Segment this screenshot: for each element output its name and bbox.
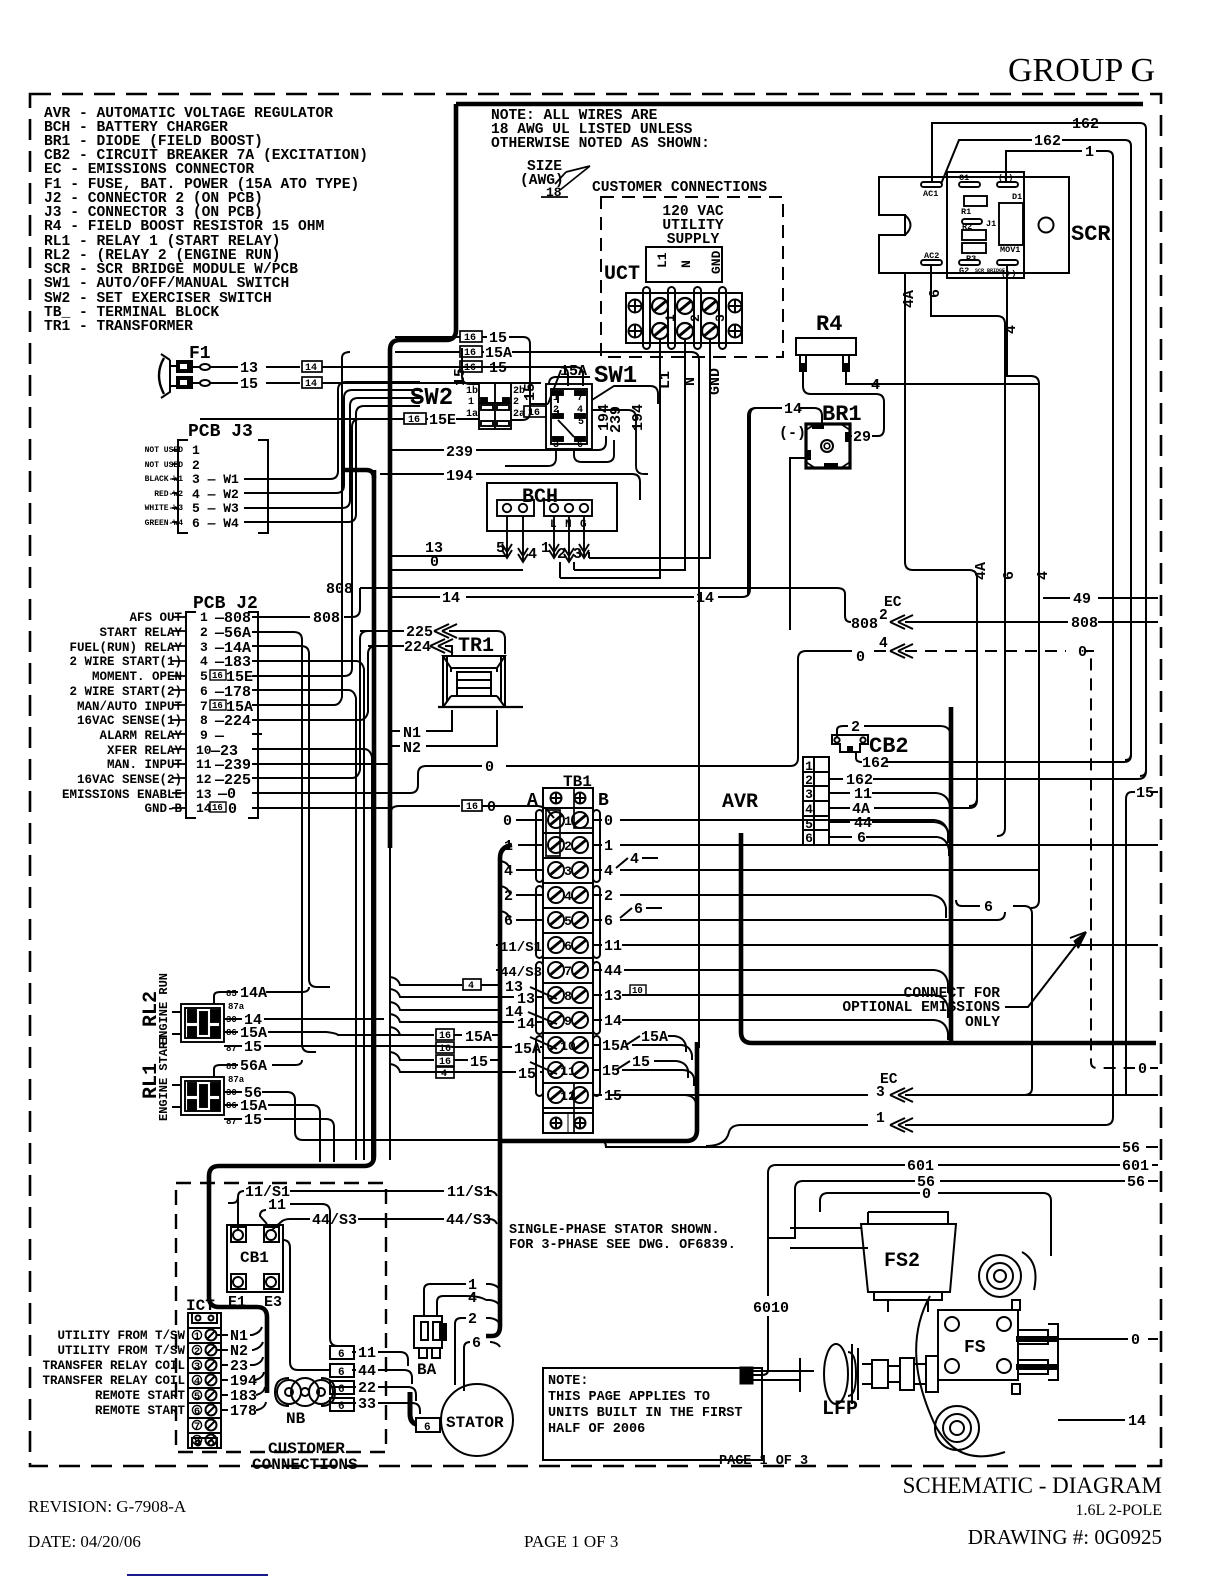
wire 15A row10 right <box>593 1036 692 1060</box>
wire 44/S3 row7 left <box>496 969 502 971</box>
wire 13 from F1 <box>210 367 568 386</box>
svg-text:15: 15 <box>604 1088 622 1105</box>
svg-text:2: 2 <box>513 397 519 408</box>
svg-text:6 — W4: 6 — W4 <box>192 516 239 531</box>
dashed customer box <box>176 1183 386 1452</box>
svg-text:11: 11 <box>604 938 622 955</box>
svg-text:11: 11 <box>268 1197 286 1214</box>
svg-text:R3: R3 <box>966 254 976 264</box>
svg-text:15A: 15A <box>602 1038 629 1055</box>
svg-text:49: 49 <box>1073 591 1091 608</box>
svg-text:15: 15 <box>244 1039 262 1056</box>
svg-text:7: 7 <box>564 964 572 979</box>
svg-text:808: 808 <box>851 616 878 633</box>
wire 4 row3 left <box>500 861 543 870</box>
wires 194 239 194 from SW1 right/bottom <box>592 410 648 474</box>
svg-text:13: 13 <box>240 360 258 377</box>
wire 2 row4 left <box>500 886 543 895</box>
svg-text:15: 15 <box>602 1063 620 1080</box>
wire 162 (diagonal from AC1 area) <box>941 140 1131 760</box>
svg-text:UTILITY FROM T/SW: UTILITY FROM T/SW <box>57 1329 185 1343</box>
svg-text:4: 4 <box>577 405 583 416</box>
AVR connector wires <box>829 771 1146 856</box>
svg-text:808: 808 <box>326 581 353 598</box>
terminal strip UCT <box>626 287 742 349</box>
svg-text:R1: R1 <box>961 207 971 217</box>
svg-text:16: 16 <box>466 802 478 813</box>
wire 14 row9 right <box>593 1020 948 1040</box>
svg-text:5: 5 <box>200 669 208 684</box>
wire 162 from CB2 bottom <box>856 752 1131 762</box>
wire diagonal into SW1 pin2 <box>530 370 561 404</box>
stator output wires 11 44 22 33 <box>332 1352 420 1414</box>
svg-text:22: 22 <box>358 1380 376 1397</box>
svg-text:16: 16 <box>439 1031 451 1042</box>
wire 13 row8 upper <box>390 977 557 999</box>
wire 15A row10 upper <box>390 1027 557 1049</box>
svg-text:3: 3 <box>805 787 813 802</box>
TB1 left wires and labels <box>390 806 557 1074</box>
svg-text:UCT: UCT <box>604 263 640 286</box>
svg-text:16: 16 <box>464 348 476 359</box>
svg-text:6: 6 <box>805 831 813 846</box>
wire none pin9 <box>252 733 262 735</box>
svg-text:N: N <box>679 260 694 268</box>
wire 601 <box>768 1165 1158 1173</box>
svg-text:15A: 15A <box>514 1041 541 1058</box>
svg-text:0: 0 <box>430 554 439 571</box>
battery charger BCH <box>487 483 617 531</box>
wire 225 pin12 <box>252 631 390 778</box>
svg-text:REMOTE START: REMOTE START <box>95 1389 186 1403</box>
wire 2 from CB2 <box>837 726 951 737</box>
svg-text:8: 8 <box>564 989 572 1004</box>
svg-text:4: 4 <box>194 1376 200 1388</box>
wire 56b <box>795 1181 1158 1189</box>
stator <box>441 1384 513 1456</box>
svg-text:NOT USED: NOT USED <box>145 461 184 470</box>
svg-text:NB: NB <box>286 1410 306 1428</box>
svg-text:REMOTE START: REMOTE START <box>95 1404 186 1418</box>
svg-text:224: 224 <box>404 639 431 656</box>
svg-text:6: 6 <box>604 913 613 930</box>
svg-text:11/S1: 11/S1 <box>447 1184 492 1201</box>
svg-text:LFP: LFP <box>822 1398 858 1421</box>
svg-text:15A: 15A <box>465 1029 492 1046</box>
svg-text:16VAC SENSE(2): 16VAC SENSE(2) <box>77 773 182 787</box>
svg-text:1: 1 <box>468 397 474 408</box>
thick stator feed elbow <box>410 1392 441 1425</box>
svg-text:4: 4 <box>504 863 513 880</box>
svg-text:0: 0 <box>503 813 512 830</box>
svg-text:5: 5 <box>805 817 813 832</box>
svg-text:CONNECTIONS: CONNECTIONS <box>252 1456 358 1474</box>
svg-text:6: 6 <box>857 830 866 847</box>
wire 44/S3 net at CB1 <box>272 1219 497 1230</box>
svg-text:5 — W3: 5 — W3 <box>192 501 239 516</box>
svg-text:1: 1 <box>1085 144 1094 161</box>
svg-text:0: 0 <box>1078 644 1087 661</box>
svg-text:STATOR: STATOR <box>446 1414 504 1432</box>
svg-text:239: 239 <box>446 444 473 461</box>
wire 14 vertical down from label <box>748 408 756 596</box>
svg-text:5: 5 <box>578 417 584 428</box>
wire 29 (R4 left leg to BR1) <box>803 371 884 436</box>
svg-text:44: 44 <box>358 1363 376 1380</box>
wire 15E size16 <box>404 413 426 424</box>
svg-text:AVR: AVR <box>722 791 758 814</box>
svg-text:MAN/AUTO INPUT: MAN/AUTO INPUT <box>77 700 183 714</box>
wire 0 row1 right <box>593 820 948 843</box>
svg-text:TR1: TR1 <box>458 635 494 658</box>
svg-text:56: 56 <box>1127 1174 1145 1191</box>
svg-text:33: 33 <box>358 1396 376 1413</box>
svg-text:14: 14 <box>784 401 802 418</box>
svg-text:2 WIRE START(1): 2 WIRE START(1) <box>69 655 182 669</box>
svg-text:194: 194 <box>630 404 647 431</box>
svg-text:NOTE:: NOTE: <box>548 1374 589 1389</box>
wire 1 row2 right <box>593 844 1158 846</box>
svg-text:14: 14 <box>305 379 317 390</box>
SCR pcb board <box>947 172 1024 278</box>
svg-text:14: 14 <box>517 1016 535 1033</box>
svg-text:14: 14 <box>442 590 460 607</box>
wire 0 row1 left <box>391 806 554 818</box>
wire 15 from F1 <box>210 382 541 384</box>
svg-text:R2: R2 <box>962 222 972 232</box>
resistor R1 (on SCR pcb) <box>964 196 987 206</box>
svg-text:9: 9 <box>564 1014 572 1029</box>
note box <box>543 1368 762 1460</box>
svg-text:1: 1 <box>663 314 678 322</box>
svg-text:6: 6 <box>984 899 993 916</box>
svg-text:4: 4 <box>528 546 537 563</box>
svg-text:R4: R4 <box>816 312 842 337</box>
svg-text:1: 1 <box>805 759 813 774</box>
fuel solenoid FS body <box>916 1252 1058 1456</box>
RL1 wires <box>214 1060 612 1162</box>
wires 1 4 2 6 to BA/stator <box>424 1284 500 1391</box>
svg-text:0: 0 <box>485 759 494 776</box>
svg-text:A: A <box>527 791 538 811</box>
svg-text:UNITS BUILT IN THE FIRST: UNITS BUILT IN THE FIRST <box>548 1406 742 1421</box>
svg-text:G2: G2 <box>959 266 969 276</box>
svg-text:START RELAY: START RELAY <box>99 626 182 640</box>
ICT right wires <box>217 1327 266 1410</box>
svg-text:OPTIONAL EMISSIONS: OPTIONAL EMISSIONS <box>842 1000 1000 1016</box>
svg-text:13: 13 <box>604 988 622 1005</box>
svg-text:15: 15 <box>632 1054 650 1071</box>
blue underline mark <box>127 1574 268 1576</box>
SCR pads and parts <box>921 182 1023 265</box>
svg-text:4: 4 <box>871 377 880 394</box>
svg-text:L1: L1 <box>655 252 670 268</box>
svg-text:2: 2 <box>468 1311 477 1328</box>
svg-text:16VAC SENSE(1): 16VAC SENSE(1) <box>77 714 182 728</box>
svg-text:FS2: FS2 <box>884 1250 920 1273</box>
wire 23 pin10 <box>252 749 372 1160</box>
svg-text:2: 2 <box>688 314 703 322</box>
svg-text:CB1: CB1 <box>240 1249 269 1267</box>
wire 15A size16 row2 <box>460 346 482 357</box>
heavy wire left vertical bus <box>390 104 456 848</box>
fittings between LFP and FS <box>888 1356 938 1392</box>
wire 162 pin2 <box>829 771 1146 779</box>
svg-text:ENGINE START: ENGINE START <box>157 1035 171 1121</box>
wire 4A pin4 <box>829 800 977 808</box>
svg-text:2: 2 <box>192 458 200 473</box>
wire 224 with arrows <box>368 639 453 656</box>
svg-text:BA: BA <box>417 1361 437 1379</box>
wire 15 size16 row3 <box>460 361 482 372</box>
svg-text:8: 8 <box>200 713 208 728</box>
svg-text:GND: GND <box>707 368 724 395</box>
svg-text:2: 2 <box>604 888 613 905</box>
svg-text:L1: L1 <box>657 371 674 389</box>
svg-text:DRAWING #: 0G0925: DRAWING #: 0G0925 <box>968 1525 1162 1549</box>
svg-text:MAN. INPUT: MAN. INPUT <box>107 758 183 772</box>
wire size marker legend (SIZE/AWG with 18) <box>520 159 590 200</box>
svg-text:14: 14 <box>305 363 317 374</box>
RL2 wires <box>214 987 454 1047</box>
wire 239 pin11 <box>252 763 392 765</box>
svg-text:601: 601 <box>1122 1158 1149 1175</box>
svg-text:6: 6 <box>564 939 572 954</box>
wire 224 pin8 <box>252 646 390 720</box>
svg-text:MOV1: MOV1 <box>1000 245 1020 255</box>
svg-text:3: 3 <box>194 1361 200 1373</box>
svg-text:10: 10 <box>196 743 212 758</box>
svg-text:178: 178 <box>230 1403 257 1420</box>
svg-text:13: 13 <box>196 787 212 802</box>
svg-text:15: 15 <box>470 1054 488 1071</box>
svg-text:87a: 87a <box>228 1002 245 1012</box>
wire 808 long horizontal <box>360 588 851 622</box>
svg-text:162: 162 <box>862 755 889 772</box>
wire 0 to BCH <box>392 569 523 571</box>
wire 14 row9 upper <box>390 1002 557 1024</box>
wires W1-W4 from J3 to bus <box>244 382 420 522</box>
svg-text:TRANSFER RELAY COIL: TRANSFER RELAY COIL <box>42 1359 185 1373</box>
wire from BR1 bottom left <box>790 458 806 630</box>
svg-text:SUPPLY: SUPPLY <box>667 232 720 248</box>
svg-text:5: 5 <box>496 540 505 557</box>
svg-text:1: 1 <box>564 814 572 829</box>
svg-text:4: 4 <box>604 863 613 880</box>
svg-text:4: 4 <box>805 802 813 817</box>
svg-text:16: 16 <box>212 803 223 813</box>
varistor MOV1 (on SCR pcb) <box>999 203 1023 245</box>
svg-text:GROUP G: GROUP G <box>1008 52 1155 89</box>
op-amp/module SCR outer housing <box>879 177 1069 273</box>
svg-text:16: 16 <box>464 333 476 344</box>
svg-text:0: 0 <box>487 799 496 816</box>
svg-text:6: 6 <box>200 684 208 699</box>
svg-text:1: 1 <box>194 1331 200 1343</box>
wire 14 long horizontal <box>392 408 756 597</box>
circuit breaker CB2 <box>832 735 868 752</box>
svg-text:0: 0 <box>856 649 865 666</box>
svg-text:4: 4 <box>200 654 208 669</box>
wire 1 (from (-) D1) <box>1006 151 1113 1117</box>
svg-text:FS: FS <box>964 1338 986 1358</box>
wire 6 (from AC2 down to AVR pin6) <box>931 265 1005 836</box>
svg-text:R4 - FIELD BOOST RESISTOR 15 O: R4 - FIELD BOOST RESISTOR 15 OHM <box>44 219 324 235</box>
svg-text:15: 15 <box>522 383 539 401</box>
svg-text:4A: 4A <box>901 290 918 308</box>
wire 0 pin13 <box>252 792 408 794</box>
svg-text:4: 4 <box>441 1069 447 1080</box>
svg-text:OTHERWISE NOTED AS SHOWN:: OTHERWISE NOTED AS SHOWN: <box>491 136 710 152</box>
svg-text:ENGINE RUN: ENGINE RUN <box>157 973 171 1045</box>
wire 225 with arrows <box>360 624 505 654</box>
svg-text:14A: 14A <box>240 985 267 1002</box>
wire 0 fs2 <box>820 1193 1051 1256</box>
svg-text:12: 12 <box>560 1089 576 1104</box>
svg-text:1: 1 <box>553 393 559 404</box>
svg-text:0: 0 <box>228 801 237 818</box>
svg-text:3 — W1: 3 — W1 <box>192 472 239 487</box>
svg-text:SW1 - AUTO/OFF/MANUAL SWITCH: SW1 - AUTO/OFF/MANUAL SWITCH <box>44 276 289 292</box>
svg-text:4: 4 <box>630 851 639 868</box>
svg-text:3: 3 <box>573 546 582 563</box>
heavy wire second vertical <box>209 470 374 1393</box>
wire 0 long horizontal <box>392 766 790 793</box>
connector BA <box>414 1316 446 1358</box>
wire 49 <box>1043 597 1158 599</box>
ICT left labels <box>42 1329 185 1418</box>
svg-text:B: B <box>598 791 609 811</box>
svg-text:0: 0 <box>1138 1061 1147 1078</box>
wire 14A pin3 <box>252 646 330 987</box>
svg-text:1: 1 <box>192 443 200 458</box>
grommet NB <box>275 1378 335 1406</box>
svg-text:PAGE 1 OF 3: PAGE 1 OF 3 <box>524 1532 618 1551</box>
svg-text:THIS PAGE APPLIES TO: THIS PAGE APPLIES TO <box>548 1390 710 1405</box>
wire 11 row6 right <box>593 944 1158 946</box>
svg-text:CUSTOMER CONNECTIONS: CUSTOMER CONNECTIONS <box>592 180 767 196</box>
wire from SW1 pin7 diagonal <box>592 386 658 404</box>
svg-text:3: 3 <box>713 314 728 322</box>
svg-text:1: 1 <box>200 610 208 625</box>
heavy wire U bundle under TB1 <box>500 1042 697 1141</box>
heavy wire top bus <box>456 102 1143 107</box>
svg-text:44: 44 <box>604 963 622 980</box>
wire 0 pin14 <box>252 807 391 809</box>
svg-text:2: 2 <box>557 546 566 563</box>
wire 13 row8 lower <box>390 989 543 997</box>
svg-text:85: 85 <box>226 1062 237 1072</box>
svg-text:194: 194 <box>446 468 473 485</box>
svg-text:D1: D1 <box>1012 192 1022 202</box>
svg-text:SCHEMATIC - DIAGRAM: SCHEMATIC - DIAGRAM <box>903 1473 1162 1498</box>
wire 239 horizontal <box>392 436 606 450</box>
svg-text:6: 6 <box>472 1335 481 1352</box>
svg-text:11: 11 <box>358 1345 376 1362</box>
wire 6 row5 left <box>500 911 543 920</box>
svg-text:15E: 15E <box>429 412 456 429</box>
svg-text:15: 15 <box>244 1112 262 1129</box>
svg-text:4: 4 <box>564 889 572 904</box>
wire 11/S1 net at CB1 <box>228 1191 497 1230</box>
breaker CB1 <box>227 1225 283 1292</box>
svg-text:44/S3: 44/S3 <box>312 1212 357 1229</box>
wire 44 vertical from CB1 <box>283 1240 330 1370</box>
wire 14 row9 lower <box>390 1014 543 1022</box>
svg-text:16: 16 <box>212 671 223 681</box>
heavy wire TB1 left bus <box>486 845 512 1336</box>
svg-text:162: 162 <box>1034 133 1061 150</box>
svg-text:2: 2 <box>851 719 860 736</box>
wire 15 row11 lower <box>390 1064 543 1072</box>
svg-text:4: 4 <box>1003 325 1020 334</box>
wire 4 row3 right <box>593 858 1039 870</box>
svg-text:SCR: SCR <box>1071 222 1111 247</box>
svg-text:14: 14 <box>604 1013 622 1030</box>
wire 2 row4 right <box>593 895 946 918</box>
svg-text:8: 8 <box>194 1436 200 1448</box>
arrow to dashed emissions wire <box>1005 932 1086 1007</box>
svg-text:AFS OUT: AFS OUT <box>129 611 182 625</box>
wire 6 pin6 <box>829 837 949 856</box>
svg-text:3: 3 <box>876 1085 885 1101</box>
svg-text:1: 1 <box>541 540 550 557</box>
svg-text:REVISION: G-7908-A: REVISION: G-7908-A <box>28 1497 187 1516</box>
svg-text:6010: 6010 <box>753 1300 789 1317</box>
wire 808 pin1 <box>252 588 360 617</box>
wire 6 row5 right <box>593 908 1005 920</box>
fuel pickup bracket <box>740 1358 814 1392</box>
svg-text:16: 16 <box>212 701 223 711</box>
svg-text:1: 1 <box>876 1111 885 1127</box>
resistor R2 (on SCR pcb) <box>962 230 986 240</box>
svg-text:0: 0 <box>1131 1332 1140 1349</box>
svg-text:11/S1: 11/S1 <box>500 940 542 956</box>
svg-text:11: 11 <box>196 757 212 772</box>
svg-text:GREEN-W4: GREEN-W4 <box>145 519 184 528</box>
wire 0 row1 left lower <box>516 819 543 821</box>
jumper J1 (on SCR pcb) <box>962 219 982 224</box>
wire 56A pin2 <box>252 632 316 1052</box>
svg-text:15: 15 <box>240 376 258 393</box>
svg-text:GND-B: GND-B <box>144 802 182 816</box>
wire 4 (from (+) down) <box>1007 265 1039 908</box>
svg-text:6: 6 <box>338 1349 345 1361</box>
resistor R3 (on SCR pcb) <box>962 243 986 253</box>
size16 at SW1 pin2 <box>524 406 546 417</box>
svg-text:2: 2 <box>194 1346 200 1358</box>
wire 44 row7 right <box>593 970 948 993</box>
svg-text:12: 12 <box>196 772 212 787</box>
wire 15A row10 lower (from RL2) <box>452 1046 543 1048</box>
svg-text:0: 0 <box>922 1186 931 1203</box>
wires N1 N2 from TR1 <box>390 710 497 746</box>
dashed box 120VAC utility supply <box>601 197 783 357</box>
note connect for optional emissions only <box>842 986 1000 1031</box>
svg-text:56A: 56A <box>240 1058 267 1075</box>
svg-text:808: 808 <box>313 610 340 627</box>
svg-text:44/S3: 44/S3 <box>446 1212 491 1229</box>
svg-text:2: 2 <box>805 773 813 788</box>
svg-text:10: 10 <box>560 1039 576 1054</box>
svg-text:HALF OF 2006: HALF OF 2006 <box>548 1422 645 1437</box>
wire 0 to FS <box>1058 1338 1158 1340</box>
wire 13 row8 right <box>593 995 948 1018</box>
svg-text:FOR 3-PHASE SEE DWG. OF6839.: FOR 3-PHASE SEE DWG. OF6839. <box>509 1238 736 1253</box>
wire 11 pin3 <box>829 793 950 812</box>
wire 15 right corner <box>1126 792 1158 1095</box>
svg-text:ALARM RELAY: ALARM RELAY <box>99 729 182 743</box>
